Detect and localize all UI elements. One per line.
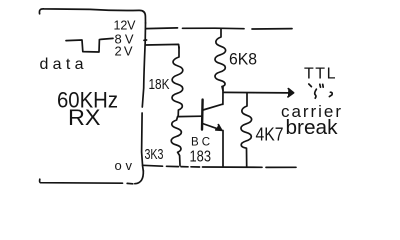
receiver box bottom-right corner [135, 171, 144, 184]
svg-text:2V: 2V [115, 43, 133, 58]
transistor emitter diagonal [203, 124, 222, 131]
wire 0V rail segment 1 [143, 164, 163, 167]
receiver box right edge (upper) [142, 23, 145, 107]
svg-text:B C: B C [191, 137, 210, 149]
receiver box 60KHz RX : top edge [39, 9, 145, 23]
quote mark right of 1 [320, 84, 323, 87]
resistor 18K [172, 47, 183, 117]
wire 0V rail main segment [203, 166, 263, 168]
resistor 3K3 [171, 117, 181, 166]
wire data output from box to 18K [146, 44, 179, 48]
quote mark left of 1 [309, 84, 312, 87]
wire 0V rail dash [191, 166, 200, 168]
wire 12V rail segment 1 [146, 27, 178, 30]
receiver box right edge (lower) [142, 113, 144, 171]
wire 12V rail dash segment 3 [252, 28, 292, 30]
wire 12V rail segment 2 [183, 27, 245, 30]
wire 0V rail dash [167, 165, 179, 167]
svg-text:183: 183 [190, 149, 212, 166]
svg-text:ov: ov [115, 158, 133, 173]
8V terminal nub on box edge [144, 39, 147, 41]
svg-text:18K: 18K [149, 76, 170, 93]
transistor collector vertical [222, 87, 224, 105]
transistor Q1 BC183 : base bar [201, 100, 204, 130]
transistor emitter vertical [222, 131, 224, 167]
transistor collector diagonal [203, 104, 223, 110]
glyph handwritten 1 [315, 89, 317, 98]
receiver box bottom dash [127, 182, 133, 184]
transistor emitter arrowhead [216, 125, 222, 131]
svg-text:3K3: 3K3 [145, 147, 164, 163]
receiver box bottom edge [40, 179, 123, 183]
resistor 4K7 [241, 93, 252, 167]
wire collector output [223, 91, 288, 94]
svg-text:4K7: 4K7 [256, 125, 284, 145]
wire base [178, 115, 201, 117]
svg-text:6K8: 6K8 [229, 50, 257, 69]
svg-text:data: data [40, 56, 84, 73]
comma after 1 [329, 92, 332, 96]
svg-text:RX: RX [68, 105, 101, 130]
resistor 6K8 [215, 29, 226, 91]
svg-text:break: break [286, 117, 339, 139]
output arrowhead [288, 89, 294, 97]
wire 0V rail dash [181, 166, 188, 168]
wire 0V rail right dash [266, 166, 296, 168]
svg-text:TTL: TTL [304, 66, 336, 83]
data waveform [66, 38, 113, 52]
